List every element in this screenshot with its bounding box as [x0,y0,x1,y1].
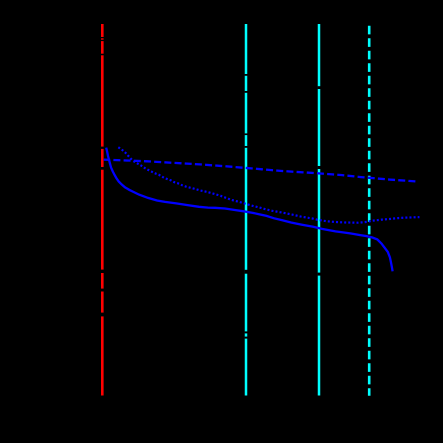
black notches on cyan line 2 [318,86,321,275]
cyan solid vertical line 2 [318,24,321,396]
blue solid curve (steep drop, long decline, final plunge) [106,148,392,272]
blue dashed line (nearly horizontal, slight decline) [104,160,416,182]
cyan solid vertical line 1 [245,24,248,396]
cyan dashed vertical line [368,26,371,396]
blue dotted curve [118,147,419,222]
black notches on red line (crossings of invisible black curves) [101,37,104,316]
black notches on cyan line 1 [245,74,248,339]
red vertical line (left model boundary) [101,24,104,396]
